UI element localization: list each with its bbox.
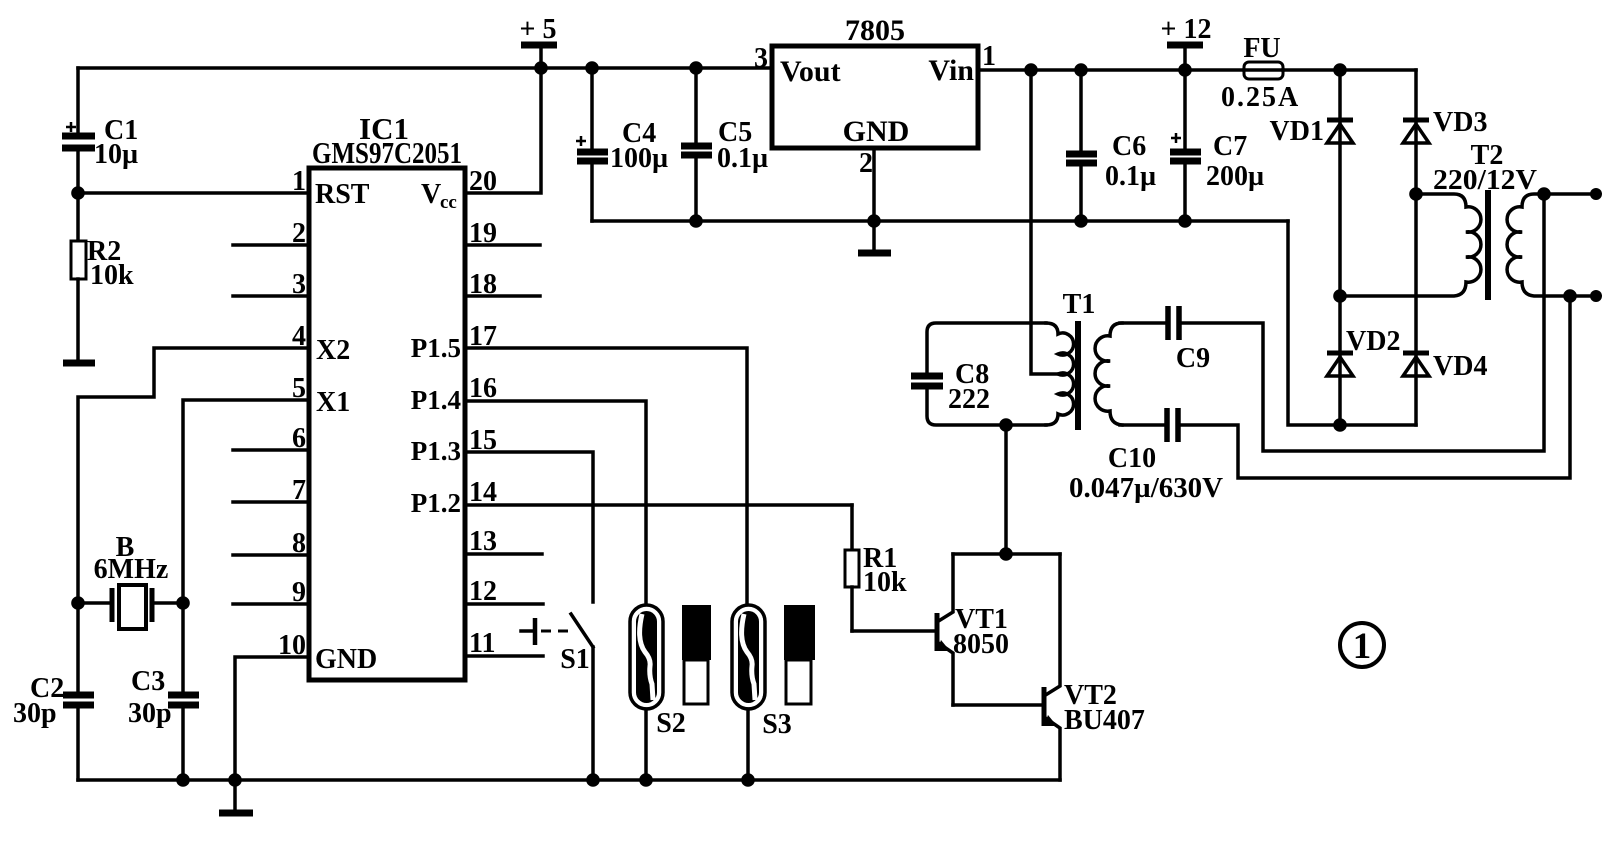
wire: junction to IC pin1 RST <box>78 191 309 195</box>
capacitor C7 200u <box>1170 70 1264 221</box>
power +5 symbol <box>520 14 557 68</box>
node: C8/T1 bottom junction <box>999 418 1013 432</box>
svg-text:C3: C3 <box>131 666 165 697</box>
wire: IC pin10 GND to bottom rail <box>235 657 309 780</box>
svg-text:T1: T1 <box>1063 289 1096 320</box>
resistor R1 10k <box>845 505 907 631</box>
svg-text:0.1µ: 0.1µ <box>1105 161 1156 192</box>
svg-text:9: 9 <box>292 577 306 608</box>
node: C6 bottom on gnd rail <box>1074 214 1088 228</box>
svg-text:6: 6 <box>292 423 306 454</box>
svg-text:1: 1 <box>292 166 306 197</box>
switch S1 <box>521 614 593 675</box>
wire: C9 to T2 secondary top <box>1182 194 1544 451</box>
svg-text:VD1: VD1 <box>1270 116 1324 147</box>
svg-text:1: 1 <box>1353 626 1372 667</box>
svg-text:19: 19 <box>469 218 497 249</box>
node: S1 on rail <box>586 773 600 787</box>
transistor VT2 BU407 <box>1044 554 1145 780</box>
capacitor C4 100u <box>576 68 668 221</box>
ground (7805) <box>858 221 891 253</box>
figure number circle 1 <box>1340 623 1384 667</box>
svg-text:30p: 30p <box>128 698 172 729</box>
svg-text:18: 18 <box>469 269 497 300</box>
node: 7805 gnd junction <box>867 214 881 228</box>
pin 12 stub <box>465 576 543 607</box>
wire: VD3/VD4 branch vertical <box>1414 70 1418 425</box>
svg-text:8050: 8050 <box>953 629 1009 660</box>
svg-text:RST: RST <box>315 179 370 210</box>
node: C3 bottom on rail <box>176 773 190 787</box>
capacitor C8 222 (tank) <box>911 323 1046 425</box>
transformer T2 220/12V primary winding <box>1340 140 1537 296</box>
node: collector junction <box>999 547 1013 561</box>
svg-text:222: 222 <box>948 384 990 415</box>
capacitor C9 <box>1120 306 1210 374</box>
pin 13 stub <box>465 526 542 557</box>
svg-text:11: 11 <box>469 628 495 659</box>
svg-text:FU: FU <box>1243 33 1280 64</box>
ground (bottom rail) <box>219 780 253 813</box>
svg-text:13: 13 <box>469 526 497 557</box>
node: T2 secondary top terminal <box>1590 188 1602 200</box>
svg-text:P1.5: P1.5 <box>411 333 461 363</box>
svg-text:BU407: BU407 <box>1064 705 1145 736</box>
regulator 7805 <box>754 14 996 179</box>
wire: VT1 emitter to VT2 base <box>953 703 1042 707</box>
svg-text:VD3: VD3 <box>1433 107 1487 138</box>
svg-text:1: 1 <box>982 41 996 72</box>
pin 2 stub <box>233 218 309 249</box>
svg-text:0.25A: 0.25A <box>1221 82 1300 113</box>
node: S2 on rail <box>639 773 653 787</box>
node: C5 bottom on gnd rail <box>689 214 703 228</box>
svg-text:6MHz: 6MHz <box>94 554 169 585</box>
transformer T2 core <box>1485 190 1491 300</box>
svg-text:P1.3: P1.3 <box>411 436 461 466</box>
capacitor C3 30p <box>128 603 199 780</box>
diode VD1 <box>1270 116 1353 147</box>
pin 19 stub <box>465 218 540 249</box>
switch S3 actuator <box>784 605 815 704</box>
switch S2 actuator <box>682 605 711 704</box>
svg-text:GND: GND <box>315 644 377 675</box>
wire: T1 bottom to VT1/VT2 collectors <box>1004 425 1008 554</box>
node: C7 tap on +12 rail <box>1178 63 1192 77</box>
svg-text:C9: C9 <box>1176 343 1210 374</box>
ground (below R2) <box>63 360 95 367</box>
node: crystal left junction <box>71 596 85 610</box>
svg-text:3: 3 <box>754 43 768 74</box>
node: C4 tap on +5 rail <box>585 61 599 75</box>
wire: gnd rail (C4 to bridge) <box>592 219 1288 223</box>
fuse FU 0.25A <box>1221 33 1300 113</box>
svg-text:10µ: 10µ <box>94 139 138 170</box>
node: C7 bottom on gnd rail <box>1178 214 1192 228</box>
wire: +12 rail (7805 Vin to fuse) <box>978 68 1244 72</box>
wire: gnd rail down to bridge minus <box>1288 221 1416 425</box>
svg-text:S1: S1 <box>560 644 590 675</box>
node: VD3/VD4 midpoint to T2 primary top <box>1409 187 1423 201</box>
node: S3 on rail <box>741 773 755 787</box>
wire: IC pin15 P1.3 to S1 <box>465 452 593 602</box>
svg-text:P1.2: P1.2 <box>411 488 461 518</box>
diode VD3 <box>1403 107 1487 143</box>
svg-text:VD2: VD2 <box>1346 326 1400 357</box>
svg-text:12: 12 <box>469 576 497 607</box>
transistor VT1 8050 <box>937 554 1009 705</box>
capacitor C10 0.047u/630V <box>1069 408 1223 504</box>
node: T1 tap on +12 rail <box>1024 63 1038 77</box>
svg-text:30p: 30p <box>13 698 57 729</box>
svg-text:C7: C7 <box>1213 131 1247 162</box>
pin 8 stub <box>233 528 309 559</box>
node: T2 secondary bottom tap <box>1563 289 1577 303</box>
svg-text:S2: S2 <box>656 708 686 739</box>
svg-text:GND: GND <box>843 115 910 148</box>
wire: IC pin14 P1.2 to R1 <box>465 503 852 507</box>
pin 9 stub <box>233 577 309 608</box>
wire: IC pin20 Vcc to +5 rail <box>465 68 541 193</box>
wire: IC pin5 X1 to crystal right <box>183 400 309 603</box>
svg-text:Vin: Vin <box>928 54 974 87</box>
diode VD2 <box>1327 326 1400 376</box>
crystal B 6MHz <box>78 532 183 629</box>
node: VD1/VD2 midpoint to T2 primary bottom <box>1333 289 1347 303</box>
node: gnd tap on rail <box>228 773 242 787</box>
transformer T1 primary winding <box>1046 289 1095 425</box>
svg-text:VD4: VD4 <box>1433 351 1487 382</box>
svg-text:+ 5: + 5 <box>520 14 557 45</box>
svg-text:10k: 10k <box>90 260 134 291</box>
pin 6 stub <box>233 423 309 454</box>
diode VD4 <box>1403 351 1487 382</box>
svg-text:0.1µ: 0.1µ <box>717 143 768 174</box>
wire: 7805 GND pin2 to gnd rail <box>872 148 876 221</box>
svg-text:GMS97C2051: GMS97C2051 <box>312 135 462 170</box>
wire: VD1/VD2 branch vertical <box>1338 70 1342 425</box>
node: C1/R2/RST junction <box>71 186 85 200</box>
svg-text:Vout: Vout <box>780 55 841 88</box>
node: +5 tap on rail <box>534 61 548 75</box>
svg-text:0.047µ/630V: 0.047µ/630V <box>1069 473 1223 504</box>
svg-text:V: V <box>421 179 441 210</box>
wire: R1 to VT1 base <box>852 629 935 633</box>
switch S3 (tilt tube) <box>732 605 792 780</box>
wire: IC pin17 P1.5 to S3 <box>465 348 747 605</box>
svg-text:cc: cc <box>440 192 457 213</box>
node: C6 tap on +12 rail <box>1074 63 1088 77</box>
power +12 symbol <box>1161 14 1212 70</box>
wire: VT1/VT2 collector rail <box>953 552 1060 556</box>
wire: +12 rail to T1 centre tap <box>1031 70 1057 374</box>
capacitor C6 0.1u <box>1066 70 1156 221</box>
svg-text:2: 2 <box>292 218 306 249</box>
svg-text:100µ: 100µ <box>610 143 668 174</box>
capacitor C2 30p <box>13 603 94 780</box>
svg-text:20: 20 <box>469 166 497 197</box>
node: bridge minus junction <box>1333 418 1347 432</box>
pin 7 stub <box>233 475 309 506</box>
resistor R2 10k <box>71 193 134 362</box>
svg-text:8: 8 <box>292 528 306 559</box>
switch S2 (tilt tube) <box>630 605 686 780</box>
transformer T1 secondary winding <box>1095 323 1122 425</box>
wire: IC pin4 X2 to crystal left <box>78 348 309 603</box>
svg-text:10k: 10k <box>863 567 907 598</box>
transformer T1 core <box>1075 321 1081 430</box>
svg-text:3: 3 <box>292 269 306 300</box>
wire: bottom ground rail <box>78 778 1060 782</box>
node: T2 secondary bottom terminal <box>1590 290 1602 302</box>
svg-text:+ 12: + 12 <box>1161 14 1212 45</box>
wire: IC pin16 P1.4 to S2 <box>465 401 646 605</box>
transformer T2 secondary winding <box>1507 194 1596 296</box>
svg-text:X2: X2 <box>316 335 350 366</box>
svg-text:7: 7 <box>292 475 306 506</box>
wire: C10 to T2 secondary bottom <box>1181 296 1570 478</box>
pin 3 stub <box>233 269 309 300</box>
capacitor C1 10u <box>62 68 138 193</box>
svg-text:X1: X1 <box>316 387 350 418</box>
svg-text:P1.4: P1.4 <box>411 385 461 415</box>
wire: S1 to bottom rail <box>591 647 595 780</box>
pin 11 stub <box>465 628 543 659</box>
svg-text:C10: C10 <box>1108 443 1156 474</box>
node: crystal right junction <box>176 596 190 610</box>
node: C5 tap on +5 rail <box>689 61 703 75</box>
pin 18 stub <box>465 269 540 300</box>
node: T2 secondary top tap <box>1537 187 1551 201</box>
svg-text:7805: 7805 <box>845 14 905 47</box>
wire: +5V top rail (C1 to 7805 Vout pin3) <box>78 66 772 70</box>
wire: fuse to bridge top <box>1283 68 1416 72</box>
svg-text:2: 2 <box>859 148 873 179</box>
IC IC1 GMS97C2051 <box>309 111 465 680</box>
svg-text:S3: S3 <box>762 709 792 740</box>
capacitor C5 0.1u <box>681 68 768 221</box>
node: VD1 top on +12 rail <box>1333 63 1347 77</box>
svg-text:200µ: 200µ <box>1206 161 1264 192</box>
svg-text:C6: C6 <box>1112 131 1146 162</box>
